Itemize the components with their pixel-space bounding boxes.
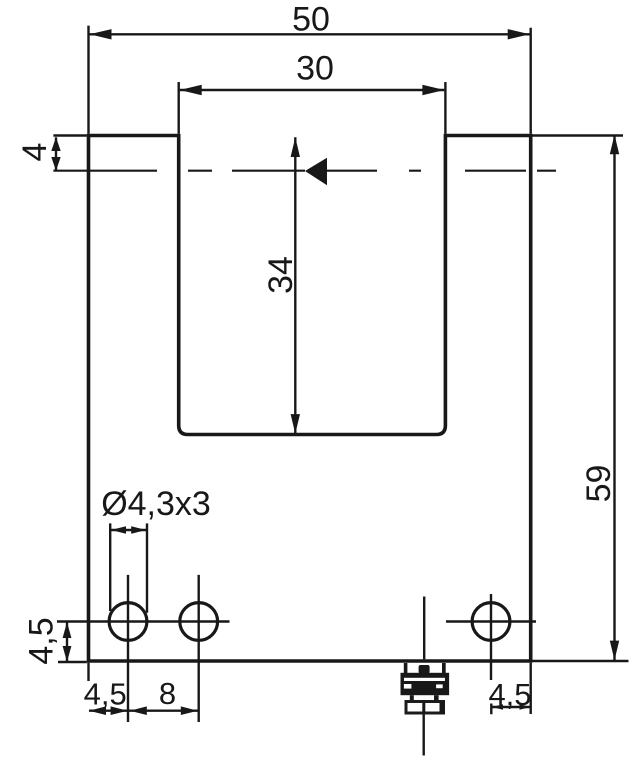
right 4,5 dimension line [491,706,531,708]
hole diameter arrow right [131,526,146,534]
right hole circle [472,603,510,641]
dimension 30 arrow left [180,85,202,95]
svg-text:59: 59 [580,465,618,503]
svg-text:4: 4 [16,143,54,162]
dimension 30 arrow right [422,85,444,95]
svg-text:4,5: 4,5 [23,617,61,664]
right 4,5 arrow left [492,704,503,710]
extension line left edge below [87,663,89,681]
connector cable line below [423,715,425,756]
connector lower divider [422,703,425,713]
connector stub right [434,695,439,702]
connector stub left [410,695,414,702]
right 4,5 arrow right [520,704,531,710]
connector main white stripe [404,678,445,681]
svg-text:4,5: 4,5 [84,677,127,712]
connector centerline above [423,597,425,660]
right hole horizontal centerline [446,620,536,622]
connector main block [401,677,450,696]
hole1 vertical centerline [127,575,129,722]
svg-text:34: 34 [262,256,300,294]
connector band [401,673,450,677]
hole1 circle [109,603,147,641]
hole2 vertical centerline [197,575,199,722]
beam arrow [305,158,327,186]
dimension 34 arrow down [291,414,300,434]
svg-text:30: 30 [296,50,334,88]
extension line left above [87,26,89,134]
dimension 34 arrow up [291,137,300,157]
connector lower-right wall [440,702,446,715]
connector collar left bar [404,663,408,675]
dimension 4 line [55,137,57,170]
connector white notch left [404,684,412,689]
diameter extension left [109,523,111,611]
extension line 59 bottom [532,660,628,662]
extension line right edge below [530,663,532,714]
diameter extension right [146,523,148,612]
dimension 4,5 left arrow up [63,622,72,638]
bottom 4,5 arrow left [89,706,106,715]
extension line bottom-left [58,661,87,663]
extension line right above [530,28,532,134]
dimension 50 arrow left [90,29,112,39]
svg-text:Ø4,3x3: Ø4,3x3 [101,485,211,523]
svg-text:8: 8 [159,676,176,711]
bottom 4,5 arrow right [111,706,128,715]
extension line slot-left above [177,82,179,134]
right hole vertical centerline [490,594,493,714]
body outline [89,136,531,662]
dimension 4,5 left line [66,622,68,662]
dimension 59 line [613,135,615,661]
extension line 4 top left [53,134,86,136]
connector cable blob [419,665,430,674]
hole diameter arrow left [111,526,126,534]
dimension 50 line [90,33,530,35]
dimension 59 arrow up [610,135,619,155]
extension line 59 top [532,134,623,136]
dimension 50 arrow right [508,29,530,39]
bottom 8 arrow left [130,706,147,715]
connector collar right bar [442,663,446,675]
dimension 4 arrow up [51,137,60,151]
connector white notch right [436,684,443,688]
dimension 4,5 left arrow down [63,646,72,662]
extension line slot-right above [444,82,446,134]
connector lower block [406,702,444,714]
dimension bottom line 4,5 and 8 [89,710,198,712]
dimension 59 arrow down [610,641,619,661]
holes horizontal centerline [57,620,230,622]
dimension 30 line [180,89,445,91]
dimension 34 line [294,137,296,434]
dimension 4 arrow down [51,157,60,171]
bottom 8 arrow right [181,706,198,715]
hole diameter dimension line [110,529,147,531]
dashed optical centerline [53,170,556,172]
hole2 circle [180,603,218,641]
svg-text:50: 50 [292,1,330,39]
svg-text:4,5: 4,5 [488,677,531,712]
